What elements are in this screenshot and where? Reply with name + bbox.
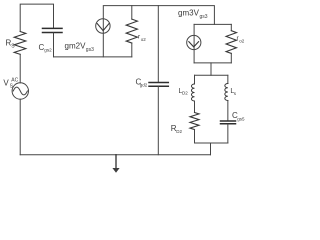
wire ro2 top [131, 6, 133, 20]
wire Ls to Cgs5 [227, 101, 229, 122]
wire LD2 to RD2 [194, 101, 196, 113]
wire gm3 box bottom [194, 62, 231, 64]
inductor LD2 [191, 84, 194, 101]
resistor Rs [14, 32, 26, 55]
svg-text:gs2: gs2 [44, 47, 52, 52]
svg-text:o2: o2 [239, 38, 245, 43]
resistor ro2 [126, 19, 137, 43]
source Vs AC [12, 83, 28, 99]
wire load box bottom [195, 142, 228, 144]
svg-text:gm2V: gm2V [65, 42, 87, 51]
wire left top rail [20, 4, 53, 31]
wire gm3 box top [194, 23, 231, 25]
wire middle node [54, 56, 132, 58]
resistor RD2 [190, 113, 199, 130]
wire Cgs5 bottom [227, 124, 229, 143]
wire RD2 bottom [194, 130, 196, 144]
ground [115, 155, 117, 169]
svg-text:V: V [3, 79, 9, 88]
wire stub between boxes [210, 63, 212, 75]
wire right top rail [103, 6, 214, 57]
wire ro2 bottom [131, 43, 133, 57]
svg-text:gs3: gs3 [200, 14, 208, 20]
resistor ro3 [226, 31, 236, 54]
wire bottom rail [20, 154, 210, 156]
wire Ls top [227, 75, 229, 83]
wire output line lower [157, 87, 159, 155]
current source gm2Vgs3 [96, 19, 110, 33]
inductor Ls [225, 84, 228, 101]
svg-text:gd2: gd2 [140, 82, 148, 87]
wire output line upper [157, 6, 159, 83]
capacitor Cgs5 [221, 120, 236, 122]
svg-text:AC: AC [11, 77, 18, 83]
wire Rs to Vs [19, 54, 21, 83]
svg-text:gs3: gs3 [86, 47, 94, 53]
capacitor Cgd2 [149, 82, 168, 84]
wire load box top [195, 74, 228, 76]
svg-text:s: s [234, 91, 237, 96]
wire Vs to bottom rail [19, 99, 21, 155]
svg-text:gs5: gs5 [237, 116, 245, 121]
wire ro3 bottom [230, 53, 232, 63]
svg-text:D2: D2 [182, 91, 188, 96]
current source gm3Vgs3 [193, 24, 195, 63]
svg-text:o2: o2 [141, 37, 147, 42]
wire stub load box to ground rail [210, 143, 212, 155]
wire ro3 top [230, 24, 232, 30]
svg-text:D2: D2 [176, 129, 182, 134]
wire Cgs2 bottom [53, 33, 55, 57]
svg-text:gm3V: gm3V [178, 8, 200, 17]
wire LD2 top [194, 75, 196, 84]
capacitor Cgs2 [43, 27, 63, 29]
